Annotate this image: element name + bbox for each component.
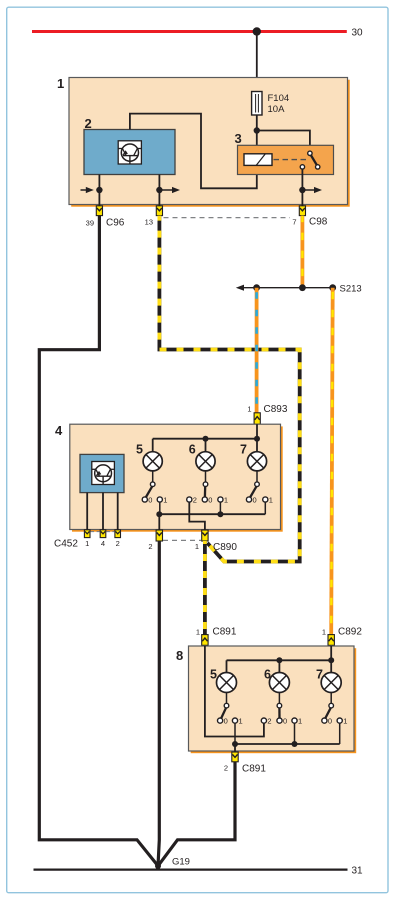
box 8 top bus [227, 659, 332, 661]
node S213 right [329, 284, 336, 291]
svg-text:1: 1 [196, 628, 200, 637]
wire black C96-39 to ground [39, 216, 158, 866]
node pin13 [156, 187, 162, 193]
svg-text:C892: C892 [338, 627, 362, 638]
svg-text:C891: C891 [213, 627, 237, 638]
svg-text:1: 1 [224, 495, 228, 504]
node bus lamp6 (box8) [276, 657, 282, 663]
connector C96 pin 39 [96, 206, 102, 216]
bus 31 (ground) [34, 868, 348, 870]
svg-text:7: 7 [240, 443, 247, 457]
svg-text:2: 2 [148, 542, 152, 551]
connector C891 pin2 [232, 752, 238, 762]
wire bus exit to C891-2 [234, 744, 236, 752]
switch lamp5 (box4) [142, 482, 162, 502]
node bus lamp6-1 (box8) [292, 741, 298, 747]
wire C892 feed inside box8 [330, 646, 332, 660]
node S213 mid [299, 284, 306, 291]
wire black/yellow C890-1 to C891-1 [203, 541, 207, 635]
connector C893 pin 1 [254, 413, 260, 424]
ground node G19 [155, 863, 161, 869]
splice S213 [242, 287, 333, 289]
connector C452 pin4 [100, 530, 106, 538]
svg-text:31: 31 [352, 866, 364, 877]
box 4 blue module [80, 454, 124, 492]
svg-text:2: 2 [267, 716, 271, 725]
node on bus 30 [253, 27, 261, 35]
relay switch lever [311, 155, 317, 165]
svg-text:0: 0 [224, 716, 228, 725]
bus 30 (battery feed) [32, 30, 347, 33]
relay contact pivot [308, 151, 312, 155]
arrow pin39 [81, 187, 94, 193]
svg-text:8: 8 [176, 648, 183, 663]
svg-text:6: 6 [189, 443, 196, 457]
node bus exit (box8) [232, 741, 238, 747]
box 3 (relay) [238, 145, 334, 174]
connector C890 pin1 [202, 530, 208, 541]
lamp 5 (box8) [217, 660, 237, 703]
svg-text:5: 5 [136, 443, 143, 457]
svg-text:1: 1 [247, 405, 251, 414]
svg-text:1: 1 [343, 716, 347, 725]
fuse F104 [252, 92, 262, 116]
svg-text:2: 2 [116, 539, 120, 548]
box4 output bus [159, 513, 265, 515]
wire orange/yellow S213 to C892 [331, 288, 333, 635]
svg-text:0: 0 [328, 716, 332, 725]
lamp 6 (box4) [196, 439, 215, 482]
node below fuse [254, 127, 260, 133]
wire G19 to bus 31 [157, 866, 159, 870]
svg-text:10A: 10A [268, 104, 286, 115]
wire branch to relay switch [257, 131, 310, 152]
svg-text:C891: C891 [242, 764, 266, 775]
transistor icon in box 4 [92, 462, 115, 485]
svg-text:6: 6 [264, 668, 271, 682]
svg-text:1: 1 [269, 495, 273, 504]
wire C891 feed inside box8 [205, 646, 264, 737]
switch lamp5 (box8) [218, 703, 238, 723]
switch lamp7 (box8) [322, 703, 343, 723]
svg-text:C890: C890 [213, 542, 237, 553]
box 4 (front lamp unit) [70, 424, 281, 529]
lamp 5 (box4) [143, 439, 162, 482]
box 8 output bus [235, 743, 340, 745]
wire bus exit to C890-2 [158, 514, 160, 530]
svg-text:1: 1 [195, 542, 199, 551]
svg-text:7: 7 [316, 668, 323, 682]
lamp 7 (box8) [321, 660, 341, 703]
arrow pin7 [302, 187, 322, 193]
box 2 (electronic module) [84, 130, 175, 175]
wire lamp6-2 to C890-1 [189, 502, 205, 530]
wire C893 feed into box 4 [256, 424, 258, 439]
svg-text:0: 0 [283, 716, 287, 725]
drop lamp7-1 (box8) [339, 723, 341, 744]
arrow S213 left [236, 285, 244, 291]
svg-text:2: 2 [85, 116, 92, 131]
dashed connector bracket C96-C98 [164, 217, 291, 219]
dashed bracket C452 [91, 531, 100, 533]
wire orange/blue S213 to C893 [255, 288, 259, 414]
connector C452 pin2 [115, 530, 121, 538]
svg-text:30: 30 [352, 28, 364, 39]
connector C891 pin1 [202, 635, 208, 646]
wires blue module to C452 [86, 493, 88, 530]
wire orange/yellow C98-7 to S213 [300, 216, 304, 288]
box 4 top bus [153, 438, 257, 440]
switch lamp6 (box8) [261, 703, 297, 723]
wire box2 left leg to pin 39 [98, 175, 100, 206]
wire black C890-2 to ground [158, 541, 159, 866]
lamp 7 (box4) [247, 439, 266, 482]
relay contact NC [316, 165, 320, 169]
svg-text:C96: C96 [106, 218, 125, 229]
wire fuse to relay coil [256, 115, 258, 155]
node bus lamp7 [254, 436, 260, 442]
svg-text:C98: C98 [309, 217, 328, 228]
svg-text:G19: G19 [172, 857, 190, 868]
switch lamp6 (box4) [187, 482, 223, 502]
svg-text:5: 5 [210, 668, 217, 682]
connector C892 pin1 [328, 635, 334, 646]
svg-text:4: 4 [101, 539, 105, 548]
svg-text:1: 1 [57, 76, 64, 91]
switch lamp7 (box4) [246, 482, 268, 502]
node pin7 [299, 187, 305, 193]
box 1 shadow [71, 80, 350, 207]
dashed bracket C890 [163, 539, 201, 541]
connector C890 pin2 [156, 530, 162, 541]
box 8 (rear lamp unit) [189, 646, 355, 751]
svg-text:0: 0 [148, 495, 152, 504]
drop lamp6-1 [219, 502, 221, 514]
svg-text:1: 1 [163, 495, 167, 504]
connector C452 pin1 [84, 530, 90, 538]
drop lamp5-1 [159, 502, 161, 514]
svg-text:2: 2 [193, 495, 197, 504]
drop lamp5-1 (box8) [234, 723, 236, 744]
relay actuation dashed link [274, 159, 307, 161]
node bus lamp6-1 [217, 511, 223, 517]
wire yellow/black C96-13 to C890-1 [159, 216, 299, 562]
relay coil [244, 154, 272, 166]
node bus exit [156, 511, 162, 517]
svg-text:4: 4 [55, 423, 63, 438]
node pin39 [96, 187, 102, 193]
box 1 (control unit) [69, 78, 348, 205]
svg-text:1: 1 [239, 716, 243, 725]
node S213 left [253, 284, 260, 291]
wire black C891-2 to ground [158, 762, 235, 866]
svg-text:2: 2 [224, 764, 228, 773]
svg-text:0: 0 [253, 495, 257, 504]
svg-text:F104: F104 [268, 93, 290, 104]
wire relay output to pin 7 [301, 169, 303, 206]
arrow pin13 [159, 187, 180, 193]
connector C96 pin 13 [156, 206, 162, 216]
svg-text:39: 39 [86, 219, 94, 228]
box 8 shadow [191, 648, 357, 753]
box 4 shadow [72, 426, 283, 531]
svg-text:C893: C893 [264, 404, 288, 415]
svg-text:13: 13 [145, 218, 153, 227]
svg-text:1: 1 [322, 628, 326, 637]
transistor icon U1 [118, 141, 141, 164]
svg-text:C452: C452 [54, 539, 78, 550]
svg-text:S213: S213 [340, 284, 362, 295]
svg-text:7: 7 [292, 218, 296, 227]
wire box2 right leg to pin 13 [158, 175, 160, 206]
svg-text:3: 3 [235, 131, 242, 146]
connector C98 pin 7 [299, 206, 305, 216]
drop lamp7-1 [264, 502, 266, 514]
drop lamp6-1 (box8) [294, 723, 296, 744]
relay contact output [300, 165, 304, 169]
wire box2 to relay coil [130, 114, 257, 189]
node bus lamp6 [203, 436, 209, 442]
svg-text:0: 0 [208, 495, 212, 504]
lamp 6 (box8) [269, 660, 289, 703]
svg-text:1: 1 [85, 539, 89, 548]
wire bus30 to fuse [256, 32, 258, 93]
svg-text:1: 1 [298, 716, 302, 725]
node bus lamp7 (box8) [328, 657, 334, 663]
